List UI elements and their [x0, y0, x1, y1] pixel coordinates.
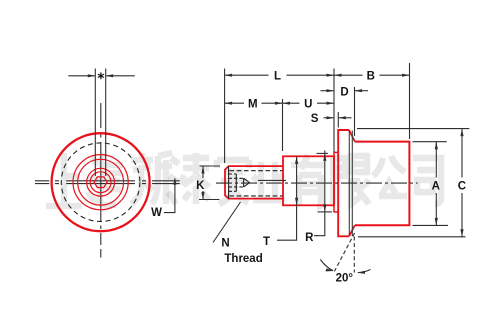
vertical dashed [353, 237, 355, 273]
star dim right arrow [106, 75, 135, 77]
svg-text:C: C [458, 181, 466, 193]
horizontal centerline upper [35, 180, 180, 182]
hex socket hidden lines [229, 174, 250, 191]
ext line flange face [333, 69, 335, 153]
ext line body right [409, 63, 411, 139]
svg-text:W: W [151, 207, 162, 219]
main centerline [216, 182, 418, 184]
C dim line [461, 129, 463, 237]
star label [98, 72, 104, 79]
svg-text:U: U [304, 99, 312, 111]
flat extension line right [105, 69, 107, 177]
short line above axis [258, 179, 286, 181]
上 [46, 153, 82, 206]
svg-text:M: M [248, 99, 258, 111]
svg-text:A: A [432, 181, 440, 193]
C ext top [357, 128, 469, 130]
ext line D right [354, 87, 356, 136]
arc right [358, 270, 371, 273]
hex shaft [94, 177, 107, 188]
svg-text:B: B [367, 71, 375, 83]
dim D arrows [321, 90, 334, 92]
业 [253, 162, 285, 200]
thread chamfer line [228, 166, 230, 198]
boss [334, 152, 338, 212]
N leader [213, 202, 241, 243]
circle r13.9 [87, 168, 115, 196]
svg-text:T: T [263, 236, 270, 248]
新 [131, 153, 172, 204]
svg-text:K: K [196, 180, 205, 192]
flat extension line left [94, 69, 96, 177]
slant dashed [334, 233, 354, 271]
司 [413, 158, 441, 204]
watermark [46, 153, 441, 207]
chamfer bottom [349, 225, 355, 236]
svg-text:Thread: Thread [224, 253, 262, 265]
ext line left [224, 69, 226, 164]
W leader [164, 179, 175, 213]
ext line M/U [282, 99, 284, 151]
svg-text:S: S [311, 113, 319, 125]
R ext bottom [318, 211, 333, 213]
thread minor dia bottom (dashed) [230, 195, 284, 197]
dim B [334, 74, 410, 76]
ext stub S right [337, 112, 339, 128]
K dim line [202, 166, 204, 200]
dim L [225, 74, 334, 76]
thread minor dia top (dashed) [230, 170, 284, 172]
star dim left arrow [68, 75, 95, 77]
限 [333, 156, 369, 204]
circle r10.4 [90, 172, 111, 193]
thread outline [225, 166, 283, 199]
dim U [283, 102, 335, 104]
horizontal centerline lower [35, 183, 180, 185]
svg-text:L: L [274, 71, 281, 83]
泰 [168, 153, 209, 204]
svg-text:R: R [305, 232, 314, 244]
svg-text:D: D [340, 86, 348, 98]
R ext top [317, 152, 329, 154]
bolt circle (dashed) [61, 143, 140, 222]
svg-text:20°: 20° [336, 272, 354, 284]
海 [88, 153, 123, 205]
outer circle [52, 133, 150, 231]
chamfer top [349, 130, 355, 142]
circle r27.6 [73, 155, 128, 210]
arc left [320, 260, 333, 271]
A ext bottom [413, 224, 449, 226]
dim M [225, 102, 283, 104]
junction line [348, 131, 350, 237]
vertical centerline [100, 103, 102, 258]
K ext bottom [199, 199, 220, 201]
有 [291, 155, 325, 207]
dim S arrows [324, 117, 334, 119]
公 [373, 156, 407, 196]
circle r22.9 [78, 159, 124, 205]
C ext bottom [358, 236, 466, 238]
dim R [314, 151, 325, 236]
flange [338, 130, 349, 236]
dim T [277, 156, 297, 240]
body [355, 142, 410, 226]
K ext top [200, 165, 221, 167]
实 [217, 160, 249, 204]
cylinder [283, 156, 334, 205]
svg-text:N: N [221, 238, 229, 250]
A ext top [413, 141, 447, 143]
A dim line [435, 142, 437, 226]
